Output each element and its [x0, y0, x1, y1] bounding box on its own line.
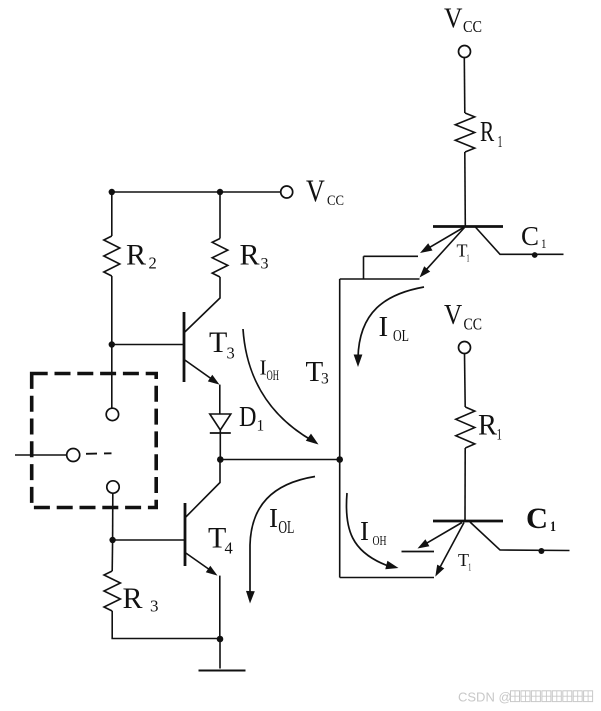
node T4 base junction — [109, 537, 115, 543]
resistor R3 (upper) — [212, 239, 228, 278]
node C1 lower — [538, 548, 544, 554]
transistor T1 (lower) base bar — [433, 520, 503, 523]
wire R3 to T3 collector — [185, 277, 220, 332]
diode D1 — [210, 414, 231, 433]
wire T1 upper emitter 1 — [427, 228, 464, 249]
arrowhead IOH (bottom right) — [385, 561, 398, 570]
resistor R2 — [104, 236, 120, 276]
wire switch to T4 base node — [112, 493, 114, 540]
svg-text:CSDN @: CSDN @ — [458, 690, 512, 705]
wire T1 lower collector to C1 — [470, 522, 570, 551]
svg-text:3: 3 — [261, 256, 269, 273]
svg-text:1: 1 — [467, 253, 470, 265]
svg-text:1: 1 — [497, 427, 503, 444]
node top-mid junction — [217, 189, 223, 195]
svg-text:R: R — [480, 116, 495, 148]
svg-text:1: 1 — [550, 519, 556, 535]
wire switch input — [15, 454, 67, 456]
wire Vcc to R3 — [219, 192, 221, 239]
svg-text:1: 1 — [498, 132, 503, 151]
wire T1 lower emitter 1 stub — [402, 551, 435, 553]
arrow T1 upper emitter 1 — [420, 243, 433, 253]
svg-text:V: V — [444, 300, 462, 331]
svg-text:V: V — [306, 173, 325, 209]
resistor R3 (lower) — [104, 571, 120, 611]
wire R2 to base node — [111, 276, 113, 345]
wire output node to T4 collector — [186, 460, 220, 518]
svg-text:I: I — [360, 516, 369, 546]
wire Vcc to R1 (upper) — [463, 58, 466, 114]
arrowhead IOL (top right) — [354, 355, 363, 368]
terminal Vcc (middle) — [281, 186, 293, 198]
transistor T1 (upper) base bar — [433, 225, 503, 228]
svg-text:D: D — [239, 401, 257, 433]
wire emitter step h2 — [340, 278, 420, 280]
svg-text:3: 3 — [321, 371, 329, 388]
wire T3 emitter to D1 — [219, 385, 221, 414]
wire T4 base — [113, 539, 185, 541]
ground — [199, 639, 246, 671]
wire R3 to ground rail — [112, 611, 220, 639]
terminal Vcc top right — [459, 46, 471, 58]
svg-text:C: C — [526, 502, 548, 535]
svg-text:CC: CC — [463, 17, 482, 36]
svg-text:CC: CC — [327, 193, 344, 209]
resistor R1 (upper) — [455, 113, 474, 152]
wire base node into switch box — [111, 345, 113, 409]
current arrow IOH (bottom right) — [346, 493, 387, 566]
svg-text:1: 1 — [257, 418, 265, 435]
svg-text:3: 3 — [150, 597, 159, 616]
arrowhead IOL (centre) — [246, 591, 255, 604]
arrow T1 lower emitter 1 — [418, 539, 430, 548]
wire base node to R3 (lower) — [111, 540, 113, 571]
svg-text:OL: OL — [278, 517, 294, 537]
wire Vcc to R1 (lower) — [464, 354, 467, 408]
wire emitter step h1 — [364, 255, 419, 257]
node output (left) — [217, 456, 224, 463]
wire emitter step v — [363, 256, 365, 279]
svg-text:OH: OH — [373, 533, 387, 548]
wire bus bottom — [340, 577, 434, 579]
svg-text:2: 2 — [149, 254, 157, 273]
wire switch wiper arm (dashed) — [86, 452, 112, 455]
current arrow IOL (top right) — [358, 287, 424, 358]
svg-text:I: I — [379, 311, 389, 343]
wire T1 upper collector to C1 — [475, 227, 564, 255]
wire T1 lower emitter 1 — [425, 523, 463, 545]
svg-text:C: C — [521, 221, 539, 251]
svg-text:R: R — [126, 238, 146, 271]
svg-text:1: 1 — [541, 236, 547, 251]
wire R1 to T1 (lower) — [464, 448, 466, 521]
svg-text:3: 3 — [227, 344, 235, 363]
svg-text:1: 1 — [468, 562, 471, 574]
current arrow IOH (centre) — [243, 329, 312, 441]
arrow T3 emitter — [208, 375, 220, 385]
arrow T4 emitter — [206, 566, 218, 576]
terminal Vcc lower right — [459, 342, 471, 354]
svg-text:OL: OL — [393, 326, 409, 345]
terminal switch contact upper — [106, 408, 118, 420]
wire output — [220, 459, 339, 461]
arrow T1 lower emitter 2 — [435, 565, 444, 577]
wire Vcc to R2 — [111, 192, 113, 236]
node top-left junction — [109, 189, 115, 195]
wire T4 emitter down — [219, 576, 221, 639]
node output (bus) — [336, 456, 343, 463]
svg-text:CC: CC — [464, 315, 483, 334]
wire T1 lower emitter 2 — [439, 523, 464, 569]
current arrow IOL (centre) — [250, 477, 315, 595]
wire T1 upper emitter 2 — [426, 228, 465, 270]
wire R1 to T1 (upper) — [464, 152, 467, 226]
node T3 base junction — [109, 341, 115, 347]
svg-text:R: R — [240, 239, 260, 272]
svg-text:I: I — [269, 503, 278, 533]
terminal switch wiper — [67, 449, 80, 462]
switch box (dashed) — [32, 374, 157, 508]
svg-text:OH: OH — [267, 368, 280, 384]
transistor T4 — [185, 503, 215, 574]
svg-text:T: T — [209, 326, 227, 359]
resistor R1 (lower) — [456, 407, 475, 448]
transistor T3 — [184, 312, 217, 383]
terminal switch contact lower — [107, 481, 119, 493]
svg-text:4: 4 — [225, 539, 233, 558]
svg-text:R: R — [123, 582, 143, 615]
arrowhead IOH (centre) — [306, 434, 319, 445]
wire top rail — [112, 191, 281, 193]
arrow T1 upper emitter 2 — [420, 266, 431, 277]
svg-text:R: R — [478, 409, 497, 442]
node C1 upper — [532, 252, 538, 258]
wire T3 base — [112, 344, 184, 346]
svg-text:V: V — [444, 3, 463, 34]
wire D1 to output node — [219, 433, 221, 460]
watermark CSDN — [458, 690, 593, 705]
node ground junction — [217, 636, 224, 643]
wire bus vertical — [339, 279, 341, 578]
